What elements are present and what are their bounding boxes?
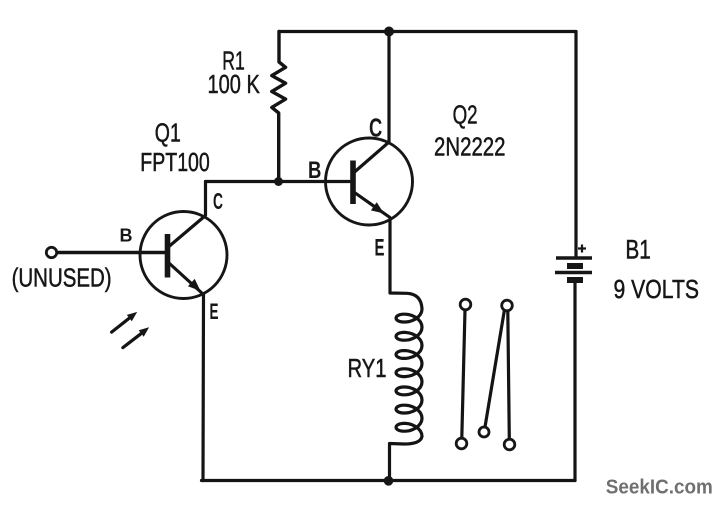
- svg-text:Q2: Q2: [453, 100, 478, 130]
- svg-text:100 K: 100 K: [208, 69, 261, 99]
- svg-text:(UNUSED): (UNUSED): [12, 263, 112, 293]
- svg-text:2N2222: 2N2222: [434, 132, 506, 162]
- svg-text:C: C: [213, 188, 223, 214]
- svg-text:C: C: [369, 113, 382, 143]
- svg-text:B1: B1: [625, 235, 651, 265]
- svg-text:9 VOLTS: 9 VOLTS: [614, 274, 700, 304]
- svg-text:B: B: [308, 157, 321, 184]
- svg-text:SeekIC.com: SeekIC.com: [606, 477, 713, 499]
- svg-text:B: B: [120, 226, 133, 246]
- svg-text:Q1: Q1: [155, 118, 181, 148]
- svg-text:FPT100: FPT100: [140, 147, 210, 177]
- svg-text:E: E: [375, 235, 385, 262]
- svg-text:RY1: RY1: [348, 353, 387, 383]
- svg-text:E: E: [210, 299, 219, 324]
